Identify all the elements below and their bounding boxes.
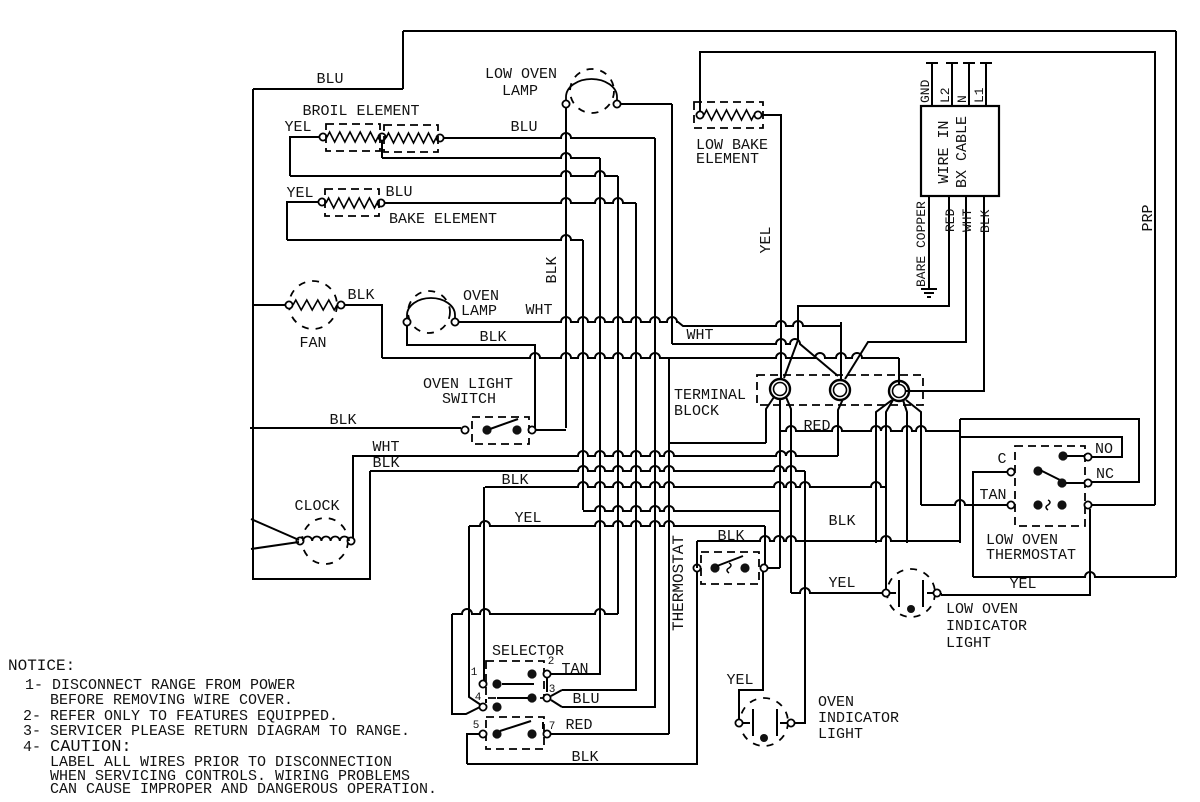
wire: BLK to oven light switch xyxy=(250,427,461,429)
wire: R4 bake-left to thermostat right xyxy=(582,240,584,510)
wire: bare copper to ground xyxy=(928,196,930,288)
wire: bus636 to selector pin3 upper xyxy=(562,203,636,690)
selector pin 2 TAN xyxy=(527,669,536,678)
wire: BLK2 line xyxy=(697,536,960,541)
wire: bake left return h5 xyxy=(287,202,318,240)
svg-text:BX CABLE: BX CABLE xyxy=(954,116,971,188)
wire: low bake right to YEL vertical xyxy=(762,115,781,379)
svg-text:BAKE ELEMENT: BAKE ELEMENT xyxy=(389,211,497,228)
wire: YEL vertical to selector pin 1 xyxy=(469,526,481,705)
svg-text:WIRE IN: WIRE IN xyxy=(936,120,953,183)
switch: THERMOSTAT row xyxy=(701,552,759,584)
svg-text:NOTICE:: NOTICE: xyxy=(8,657,75,675)
wire: clock left diagonals to rail xyxy=(251,519,299,540)
wire: vertical 960 to BLK2 xyxy=(959,437,961,543)
svg-text:BLK: BLK xyxy=(828,513,855,530)
svg-text:BLOCK: BLOCK xyxy=(674,403,719,420)
svg-text:1: 1 xyxy=(471,667,478,679)
svg-text:7: 7 xyxy=(549,721,556,733)
svg-text:NC: NC xyxy=(1096,466,1114,483)
wire: tick pin2 xyxy=(546,678,548,692)
terminal C xyxy=(1007,468,1014,475)
wire: lamp right to bus 672 xyxy=(621,103,672,105)
svg-text:WHT: WHT xyxy=(960,208,975,232)
svg-text:RED: RED xyxy=(565,717,592,734)
wire: bus655 BLU to selector pin3 xyxy=(562,138,655,707)
svg-text:BLK: BLK xyxy=(372,455,399,472)
svg-text:FAN: FAN xyxy=(299,335,326,352)
wire: branch y443 to T1 xyxy=(669,442,766,444)
lamp: LOW OVEN LAMP xyxy=(570,69,614,113)
svg-text:2: 2 xyxy=(548,656,555,668)
svg-text:L1: L1 xyxy=(972,87,987,103)
svg-text:BLU: BLU xyxy=(572,691,599,708)
svg-text:WHT: WHT xyxy=(525,302,552,319)
svg-text:YEL: YEL xyxy=(758,226,775,253)
svg-text:4: 4 xyxy=(475,692,482,704)
svg-text:L2: L2 xyxy=(938,87,953,103)
svg-text:SWITCH: SWITCH xyxy=(442,391,496,408)
wire: T2 fan strand to WHT R1 xyxy=(838,399,843,456)
wire: broil left YEL return h3 xyxy=(290,137,319,176)
wire: fan right BLK to terminal T3 xyxy=(345,305,382,358)
wire: thermostat right junction xyxy=(768,567,780,569)
wire: fan left to rail xyxy=(253,304,285,306)
wire: T3 fan left xyxy=(876,400,892,543)
svg-text:LOW OVEN: LOW OVEN xyxy=(485,66,557,83)
svg-text:BLK: BLK xyxy=(347,287,374,304)
svg-text:INDICATOR: INDICATOR xyxy=(946,618,1027,635)
wire: BLK vertical to selector pin 1 xyxy=(483,487,485,680)
svg-text:5: 5 xyxy=(473,720,480,732)
ground symbol xyxy=(921,288,937,290)
wire: broil right BLU h1 xyxy=(444,133,655,138)
svg-text:INDICATOR: INDICATOR xyxy=(818,710,899,727)
wire: bus 566 BLK vertical (lamp left down) xyxy=(565,108,567,428)
wire: TAN from T3 xyxy=(921,500,1007,505)
selector pin 4 xyxy=(479,703,486,710)
wire: T3 fan strand to BLK2 xyxy=(903,400,907,543)
wire: 1090 down to low oven indicator xyxy=(941,509,1090,595)
svg-text:YEL: YEL xyxy=(284,119,311,136)
svg-text:CAN CAUSE IMPROPER AND DANGERO: CAN CAUSE IMPROPER AND DANGEROUS OPERATI… xyxy=(50,781,437,798)
wire: T3 fan right TAN xyxy=(906,400,921,505)
svg-text:ELEMENT: ELEMENT xyxy=(696,151,759,168)
wire: pin7 to vertical 669 RED row xyxy=(551,733,669,735)
switch: OVEN LIGHT SWITCH xyxy=(472,417,529,444)
svg-text:BLK: BLK xyxy=(329,412,356,429)
wire: thermostat right down to oven ind light left xyxy=(739,572,763,719)
wire: RED below terminal block xyxy=(780,426,960,431)
wire: selector pin4 loop y613 xyxy=(617,176,619,614)
wire: YEL R5 to thermostat right terminal xyxy=(469,521,765,526)
contact NO row xyxy=(1058,451,1067,460)
wire: T1 fan left strand xyxy=(766,397,774,443)
svg-text:BARE COPPER: BARE COPPER xyxy=(914,201,929,287)
wire: top border BLU loop xyxy=(253,88,403,90)
svg-text:THERMOSTAT: THERMOSTAT xyxy=(986,547,1076,564)
svg-text:N: N xyxy=(955,95,970,103)
wire: TAN right to PRP xyxy=(1092,504,1155,506)
svg-text:LOW OVEN: LOW OVEN xyxy=(946,601,1018,618)
svg-text:YEL: YEL xyxy=(828,575,855,592)
lamp: OVEN LAMP xyxy=(408,291,450,333)
terminal block dashed box xyxy=(757,375,923,405)
wire: pin2 to bus600 xyxy=(551,673,600,675)
resistor: FAN xyxy=(289,281,337,329)
wire: bus600 to selector pin2 xyxy=(551,158,600,674)
svg-text:BLU: BLU xyxy=(316,71,343,88)
svg-text:THERMOSTAT: THERMOSTAT xyxy=(670,535,688,631)
svg-text:WHT: WHT xyxy=(372,439,399,456)
svg-text:RED: RED xyxy=(803,418,830,435)
terminal T1 xyxy=(770,379,790,399)
wire: pin5 left down to BLK row xyxy=(467,734,479,764)
wire: L1 lead xyxy=(985,63,987,106)
wire: T1 fan right YEL to low oven indicator xyxy=(786,397,791,593)
svg-text:YEL: YEL xyxy=(286,185,313,202)
wire: tee 344 BLK to T2 xyxy=(672,339,838,376)
svg-text:BLU: BLU xyxy=(385,184,412,201)
svg-text:GND: GND xyxy=(918,79,933,103)
resistor: LOW BAKE ELEMENT xyxy=(696,111,703,118)
wire: border bottom segment to low oven thermostat box xyxy=(973,572,1176,577)
svg-text:CLOCK: CLOCK xyxy=(294,498,339,515)
wire: WHT from BX to T2 xyxy=(845,196,966,379)
inductor: CLOCK xyxy=(302,518,348,564)
resistor: BROIL ELEMENT (two sections) xyxy=(319,133,326,140)
notice text block xyxy=(8,657,437,798)
wire: oven lamp left BLK down/right xyxy=(407,326,535,428)
wire: BLK from clock loop R2 xyxy=(369,471,371,579)
node: left rail BLK xyxy=(253,89,370,579)
wire: N lead xyxy=(968,63,970,106)
svg-text:WHT: WHT xyxy=(686,327,713,344)
svg-text:BLK: BLK xyxy=(544,256,561,283)
wire: RED NC loop xyxy=(959,419,961,437)
svg-text:TERMINAL: TERMINAL xyxy=(674,387,746,404)
wire: WHT from oven lamp right xyxy=(459,317,841,326)
svg-text:BLK: BLK xyxy=(717,528,744,545)
wire: bus 672 vertical lamp right down to T2 branch xyxy=(671,104,673,344)
svg-text:TAN: TAN xyxy=(561,661,588,678)
svg-text:LIGHT: LIGHT xyxy=(818,726,863,743)
svg-text:YEL: YEL xyxy=(514,510,541,527)
svg-text:BLU: BLU xyxy=(510,119,537,136)
wire: RED from BX xyxy=(784,196,949,378)
selector pin 3 xyxy=(527,693,536,702)
svg-text:YEL: YEL xyxy=(726,672,753,689)
resistor: BAKE ELEMENT xyxy=(318,198,325,205)
svg-text:BLK: BLK xyxy=(978,209,993,233)
wire: Y52 rail to PRP xyxy=(700,52,1155,505)
wire: switch right to bus566 xyxy=(536,429,566,431)
wire: broil mid terminal h2 xyxy=(381,141,383,158)
svg-text:BLK: BLK xyxy=(479,329,506,346)
svg-text:LIGHT: LIGHT xyxy=(946,635,991,652)
svg-text:LAMP: LAMP xyxy=(502,83,538,100)
wire: GND lead xyxy=(931,63,933,106)
lamp: LOW OVEN INDICATOR LIGHT xyxy=(887,569,935,617)
wire: WHT bus corner into T2 xyxy=(840,322,842,380)
wire: thermostat left vertical down to selector BLK row xyxy=(696,541,698,568)
terminal T2 xyxy=(830,380,850,400)
wire: T3 fan strand to R3 xyxy=(886,400,893,487)
wire: WHT from clock R1 xyxy=(353,451,838,456)
svg-text:YEL: YEL xyxy=(1009,576,1036,593)
wire: BLK R3 to low oven indicator left xyxy=(485,482,886,487)
selector pin 1 xyxy=(479,680,486,687)
svg-text:C: C xyxy=(997,451,1006,468)
svg-text:BLK: BLK xyxy=(501,472,528,489)
svg-text:BEFORE REMOVING WIRE COVER.: BEFORE REMOVING WIRE COVER. xyxy=(50,692,293,709)
wire: NO loop xyxy=(960,437,1122,457)
wire: vertical 669 fan line to selector RED row xyxy=(668,358,670,734)
svg-text:PRP: PRP xyxy=(1140,204,1157,231)
svg-text:TAN: TAN xyxy=(979,487,1006,504)
contact arm C to NC xyxy=(1033,466,1042,475)
selector pin 7 xyxy=(527,729,536,738)
wire: T1 fan middle vertical to thermostat right xyxy=(779,399,781,568)
wire: right border PRP outer xyxy=(1175,31,1177,577)
box: WIRE IN BX CABLE xyxy=(921,106,999,196)
contact TAN row xyxy=(1007,501,1014,508)
wire: C left loop via box xyxy=(973,472,1007,577)
switch: LOW OVEN THERMOSTAT dashed box xyxy=(1015,446,1085,526)
selector pin 5 xyxy=(479,730,486,737)
svg-text:LAMP: LAMP xyxy=(461,303,497,320)
wire: 805 vertical clock BLK to oven indicator light right xyxy=(795,471,805,723)
svg-text:OVEN: OVEN xyxy=(818,694,854,711)
svg-text:BROIL ELEMENT: BROIL ELEMENT xyxy=(302,103,419,120)
svg-text:RED: RED xyxy=(943,208,958,232)
svg-text:NO: NO xyxy=(1095,441,1113,458)
svg-text:BLK: BLK xyxy=(571,749,598,766)
wire: bake right h4 xyxy=(385,198,636,203)
wire: YEL from T1 to light left xyxy=(791,588,883,593)
terminal T3 xyxy=(889,381,909,401)
wire: L2 lead xyxy=(951,63,953,106)
lamp: OVEN INDICATOR LIGHT xyxy=(740,698,788,746)
wire: BLK from BX to T3 xyxy=(905,196,984,391)
wire: clock right WHT up xyxy=(352,455,354,538)
